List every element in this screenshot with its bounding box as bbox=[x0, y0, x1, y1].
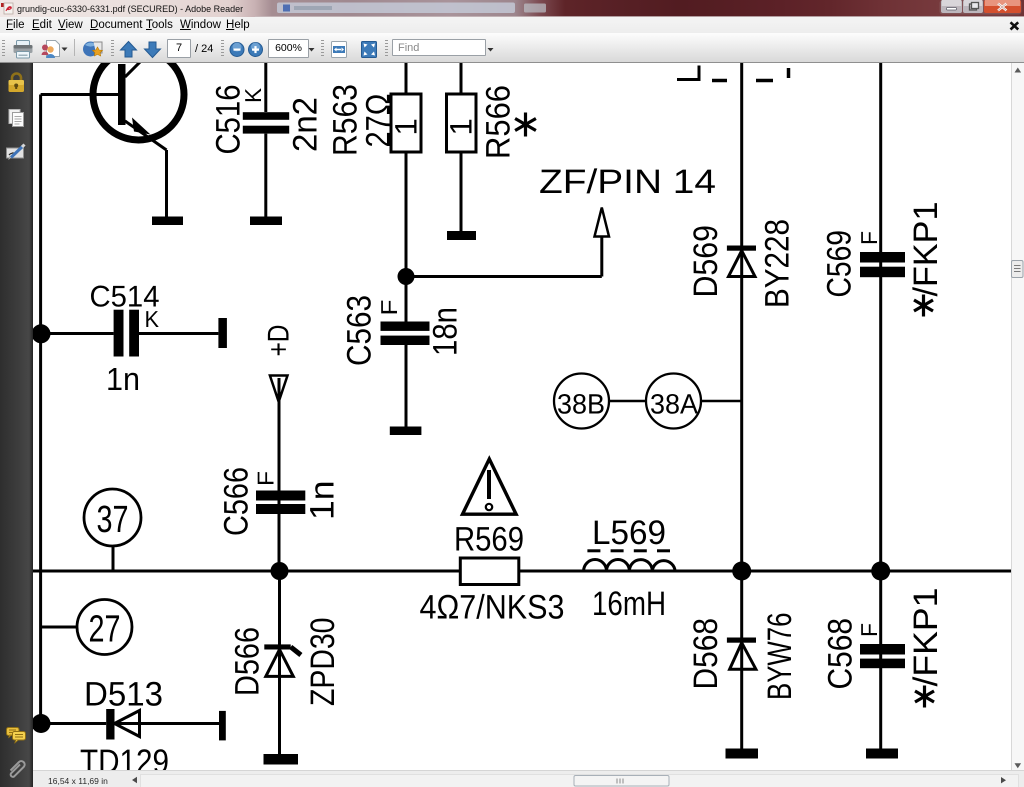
svg-text:BYW76: BYW76 bbox=[761, 613, 799, 701]
svg-text:4Ω7/NKS3: 4Ω7/NKS3 bbox=[420, 589, 565, 627]
svg-text:R566: R566 bbox=[480, 85, 518, 159]
svg-text:C563: C563 bbox=[341, 295, 379, 366]
connector 38A bbox=[646, 374, 701, 429]
caret 600% bbox=[309, 48, 315, 52]
node J4 bbox=[271, 562, 289, 580]
dash 1 bbox=[712, 79, 727, 83]
diode D568 bbox=[727, 638, 756, 670]
capacitor C516 bbox=[243, 63, 289, 217]
svg-text:D513: D513 bbox=[84, 676, 163, 714]
pages icon bbox=[9, 110, 24, 127]
wire +D to bus bbox=[278, 378, 281, 571]
dash 3 vertical bbox=[787, 68, 791, 78]
terminal D513 bbox=[219, 711, 226, 741]
asterisk of C569 bbox=[914, 295, 933, 317]
svg-text:D568: D568 bbox=[687, 618, 725, 690]
ground C563 bbox=[390, 427, 422, 436]
dashes of L569 bbox=[587, 549, 670, 552]
svg-text:18n: 18n bbox=[427, 307, 465, 356]
asterisk of R566 bbox=[515, 113, 536, 137]
window buttons bbox=[940, 0, 1022, 15]
main bus wire right bbox=[519, 570, 1011, 573]
svg-text:K: K bbox=[145, 306, 160, 332]
svg-text:ZF/PIN 14: ZF/PIN 14 bbox=[539, 163, 716, 201]
up arrow bbox=[121, 42, 137, 58]
zoom out button bbox=[230, 43, 244, 57]
fit width icon bbox=[332, 42, 347, 58]
node J2 bbox=[732, 562, 751, 581]
wire left vertical rail bbox=[39, 95, 42, 724]
svg-text:D566: D566 bbox=[229, 627, 267, 696]
collaborate icon bbox=[42, 41, 68, 59]
wire C569 branch bbox=[879, 63, 882, 749]
lock icon bbox=[9, 74, 25, 92]
wire to ZF bbox=[406, 237, 602, 277]
asterisk of C568 bbox=[915, 686, 934, 708]
wire 38A to D569 line bbox=[701, 400, 742, 402]
svg-text:L569: L569 bbox=[592, 514, 666, 552]
svg-text:C569: C569 bbox=[821, 230, 859, 298]
terminal C514 bbox=[218, 318, 227, 348]
v scrollbar arrows & thumb bbox=[1012, 68, 1024, 769]
dash 2 bbox=[756, 79, 773, 83]
arrow +D bbox=[270, 376, 288, 402]
wire 27 stub bbox=[41, 626, 77, 629]
svg-text:F: F bbox=[856, 623, 882, 637]
right scrollbar bbox=[1011, 63, 1024, 770]
ground Q1 emitter bbox=[152, 217, 183, 226]
status bar bbox=[33, 770, 1024, 787]
zoom in button bbox=[249, 43, 263, 57]
svg-text:37: 37 bbox=[97, 499, 129, 541]
ground D568 bbox=[726, 749, 759, 759]
browser bar behind glass bbox=[277, 3, 546, 14]
svg-text:F: F bbox=[376, 300, 402, 316]
down arrow bbox=[145, 42, 161, 58]
svg-text:D569: D569 bbox=[687, 225, 725, 298]
comments bubbles icon bbox=[7, 728, 26, 744]
main bus wire left bbox=[33, 570, 460, 573]
svg-text:27Ω: 27Ω bbox=[360, 94, 398, 148]
toolbar bbox=[0, 33, 1024, 63]
connector 38B bbox=[554, 374, 609, 429]
fit page icon bbox=[362, 42, 377, 58]
wire 37 stub bbox=[112, 546, 115, 571]
capacitor C568 bbox=[860, 644, 905, 668]
resistor R563 bbox=[389, 63, 424, 277]
wire D569 branch bbox=[740, 63, 743, 749]
ground C516 bbox=[250, 217, 282, 226]
svg-text:K: K bbox=[240, 87, 266, 103]
svg-text:/FKP1: /FKP1 bbox=[907, 588, 945, 687]
node D513 bbox=[32, 714, 51, 733]
diode D569 bbox=[727, 246, 756, 277]
signature icon bbox=[7, 145, 25, 161]
node J1 bbox=[398, 268, 415, 285]
resistor R569 bbox=[460, 558, 519, 585]
capacitor C566 bbox=[256, 491, 305, 515]
capacitor C569 bbox=[860, 252, 905, 277]
ground D566 bbox=[264, 754, 299, 765]
zener D566 bbox=[264, 571, 301, 754]
menu bar bbox=[0, 17, 1024, 34]
diode D513 bbox=[41, 709, 219, 740]
caret find bbox=[488, 48, 494, 52]
wire base of Q bbox=[41, 93, 119, 96]
svg-text:38B: 38B bbox=[557, 389, 605, 420]
arrow ZF bbox=[595, 208, 610, 237]
inductor L569 bbox=[584, 560, 676, 571]
svg-text:ZPD30: ZPD30 bbox=[304, 618, 342, 707]
svg-text:BY228: BY228 bbox=[759, 219, 797, 308]
menubar close x bbox=[1011, 22, 1019, 29]
capacitor C563 bbox=[381, 277, 430, 427]
ground R566 bbox=[447, 231, 476, 240]
wire emitter down bbox=[165, 150, 168, 217]
svg-text:27: 27 bbox=[89, 609, 121, 651]
node J3 bbox=[871, 562, 890, 581]
svg-text:1: 1 bbox=[444, 118, 479, 135]
svg-text:R569: R569 bbox=[454, 521, 524, 559]
ground C568 bbox=[866, 749, 898, 759]
svg-text:+D: +D bbox=[263, 325, 296, 357]
connector 37 bbox=[84, 489, 141, 546]
preview/globe icon bbox=[83, 42, 103, 57]
paperclip icon bbox=[11, 761, 25, 777]
svg-text:/FKP1: /FKP1 bbox=[907, 202, 945, 297]
h scrollbar thumb & arrows bbox=[132, 776, 1006, 787]
svg-text:TD129: TD129 bbox=[80, 743, 169, 781]
wire 38B-38A bbox=[609, 400, 646, 402]
capacitor C514 bbox=[42, 310, 218, 357]
dashed corner top bbox=[677, 66, 699, 80]
resistor R566 bbox=[444, 63, 479, 231]
pdf icon in title bbox=[1, 3, 13, 14]
svg-text:16mH: 16mH bbox=[592, 585, 666, 623]
transistor Q1 bbox=[93, 49, 184, 150]
svg-text:F: F bbox=[856, 231, 882, 245]
svg-text:1n: 1n bbox=[304, 481, 342, 521]
connector 27 bbox=[77, 600, 132, 655]
svg-text:C568: C568 bbox=[822, 618, 860, 690]
node C514 bbox=[32, 324, 51, 343]
title bar bbox=[0, 0, 1024, 17]
svg-text:38A: 38A bbox=[650, 389, 698, 420]
printer icon bbox=[14, 41, 33, 59]
svg-text:2n2: 2n2 bbox=[287, 97, 325, 152]
svg-text:1n: 1n bbox=[106, 361, 140, 397]
warning triangle bbox=[463, 459, 517, 514]
svg-text:F: F bbox=[253, 471, 279, 486]
svg-text:C566: C566 bbox=[218, 467, 256, 536]
sidebar bbox=[0, 63, 33, 787]
